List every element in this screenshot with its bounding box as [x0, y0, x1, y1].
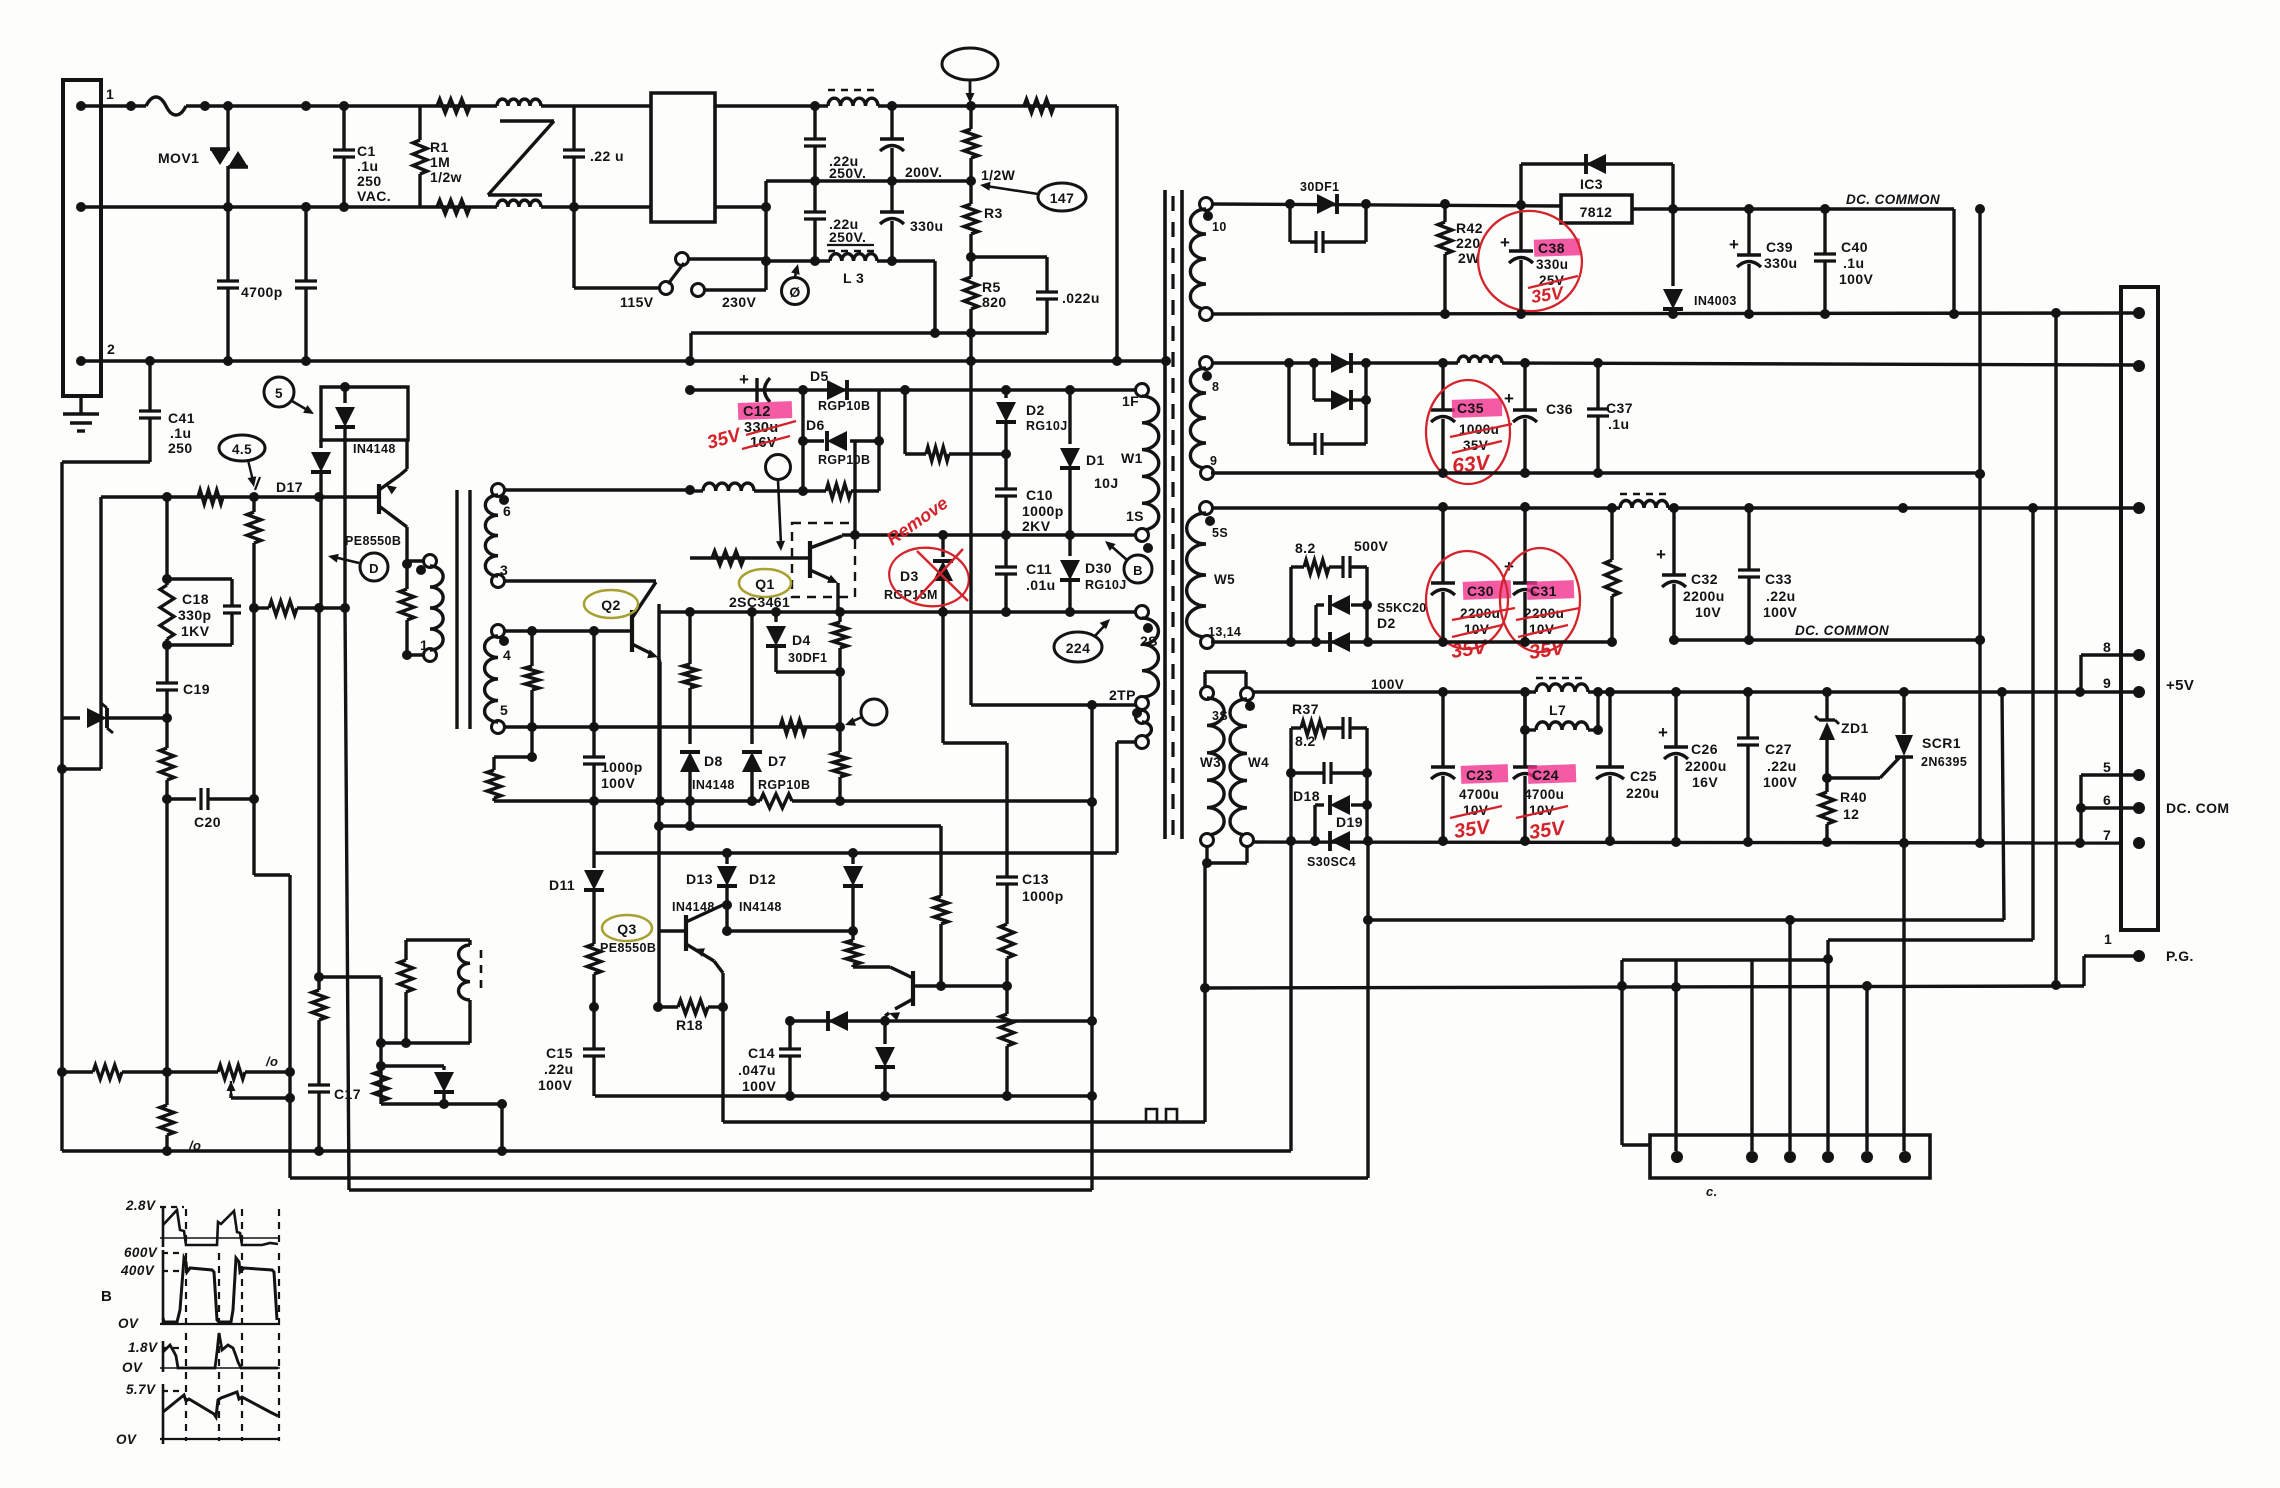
winding 5S [1200, 502, 1213, 515]
svg-text:820: 820 [982, 294, 1007, 310]
svg-text:RGP10B: RGP10B [818, 399, 870, 413]
resistor x254 upper [252, 497, 255, 512]
capacitor C30 [1441, 507, 1444, 583]
wire pin5 bracket [2081, 773, 2139, 776]
waveform4 axis [162, 1384, 165, 1444]
winding W4 [1241, 688, 1254, 701]
wire row2 bottom rail [1211, 471, 1980, 474]
resistor x853 to Q4 [851, 931, 854, 940]
pin 8 [2133, 649, 2145, 661]
arrow from 4.5 [248, 460, 253, 481]
wire 200V midline [766, 179, 971, 182]
wire rail1 right part [715, 104, 828, 107]
svg-text:100V: 100V [1763, 774, 1798, 790]
red circle around D3 [885, 543, 972, 612]
diode D2 [1004, 390, 1007, 398]
SCR1 gate [1827, 776, 1880, 779]
svg-text:PE8550B: PE8550B [345, 534, 401, 548]
wire D6 loop left [801, 390, 804, 491]
wire Q4 collector [853, 965, 890, 968]
resistor x840 upper [838, 612, 841, 622]
wire row2 right vertical [1364, 363, 1367, 444]
wire y1066 [381, 1064, 444, 1067]
svg-text:D19: D19 [1336, 814, 1363, 830]
svg-text:DC. COMMON: DC. COMMON [1846, 192, 1940, 207]
wire doubler mid vertical [764, 181, 767, 290]
svg-text:C19: C19 [183, 681, 210, 697]
diode D30 [1068, 535, 1071, 556]
wire y1043 [381, 1041, 470, 1044]
wire pin2 riser [1750, 960, 1753, 1151]
wire pin3 riser [1788, 920, 1791, 1151]
transistor Q4 [911, 971, 915, 1006]
diode D3 with red remove [941, 535, 944, 557]
svg-text:1000p: 1000p [1022, 503, 1064, 519]
cap row4 mid [1291, 771, 1324, 774]
balloon B [1124, 555, 1152, 583]
resistor across T2 left [405, 530, 408, 589]
wire x659 down [657, 612, 660, 931]
pink highlight C35 [1452, 398, 1503, 418]
inductor on line 2 [497, 200, 541, 207]
svg-text:IN4003: IN4003 [1694, 294, 1737, 308]
svg-text:L 3: L 3 [843, 270, 864, 286]
core line left [1163, 190, 1167, 839]
svg-text:OV: OV [118, 1316, 139, 1331]
waveform 4 [163, 1392, 278, 1417]
balloon 224 [1054, 632, 1102, 662]
svg-text:4700p: 4700p [241, 284, 283, 300]
wire row4 bottom rail [1252, 842, 2121, 843]
wire AC line 1 [81, 104, 146, 107]
svg-text:C11: C11 [1026, 561, 1052, 577]
T2 left winding stubs [407, 559, 424, 562]
wire rung y491 [498, 488, 690, 491]
wire MOV drop [226, 106, 229, 148]
wire x941 top y826 [939, 826, 942, 853]
diode row2 b [1312, 363, 1315, 400]
wire x1980 long [1978, 209, 1981, 843]
svg-text:B: B [101, 1288, 112, 1305]
balloon 5 [264, 377, 294, 407]
resistor R3 upper [969, 106, 972, 129]
winding 3S W3 [1201, 687, 1214, 700]
svg-text:C17: C17 [334, 1086, 361, 1102]
pin 7 [2133, 837, 2145, 849]
capacitor C20 [167, 797, 196, 800]
svg-text:9: 9 [1210, 454, 1217, 468]
resistor pot row left [62, 1070, 93, 1073]
diode row2 a [1331, 353, 1351, 373]
wire x317 C17 column [317, 608, 320, 977]
svg-text:R1: R1 [430, 139, 449, 155]
winding 8-9 [1200, 357, 1213, 370]
arrow from 5 [292, 401, 309, 411]
capacitor C25 [1608, 692, 1611, 767]
svg-text:16V: 16V [1692, 774, 1718, 790]
svg-text:4: 4 [503, 647, 511, 663]
svg-text:W5: W5 [1214, 572, 1235, 587]
wire y1104 [381, 1102, 502, 1105]
svg-text:.1u: .1u [1843, 255, 1864, 271]
svg-text:10J: 10J [1094, 475, 1119, 491]
svg-text:35V: 35V [1453, 816, 1493, 843]
svg-text:Q3: Q3 [617, 921, 636, 937]
diode D4 loop [774, 612, 777, 622]
svg-text:230V: 230V [722, 294, 757, 310]
pot wiper wire [229, 1094, 232, 1098]
svg-text:DC. COMMON: DC. COMMON [1795, 623, 1889, 638]
wire pin5 riser [1865, 986, 1868, 1151]
resistor below D11 [587, 944, 601, 974]
wire Q2 collector x659 [657, 604, 660, 612]
svg-text:1: 1 [420, 637, 428, 653]
resistor x1007 lower [1000, 1014, 1014, 1046]
svg-text:10: 10 [1212, 220, 1227, 234]
W3 W4 bottom tie [1205, 845, 1208, 863]
arrow from 224 [1094, 624, 1106, 637]
svg-text:5S: 5S [1212, 526, 1228, 540]
pin 9 [2133, 686, 2145, 698]
arrow to x840 node [849, 717, 862, 723]
pin row2 J2 [2133, 360, 2145, 372]
svg-text:VAC.: VAC. [357, 188, 391, 204]
wire rail y497 [101, 495, 377, 498]
svg-text:B: B [1133, 563, 1143, 578]
svg-text:.047u: .047u [738, 1062, 776, 1078]
wire PG stub [2084, 954, 2139, 957]
pulse symbol [1140, 1109, 1183, 1122]
svg-text:RGP15M: RGP15M [884, 588, 938, 602]
svg-text:IN4148: IN4148 [739, 900, 782, 914]
svg-text:R3: R3 [984, 205, 1003, 221]
svg-text:W3: W3 [1200, 755, 1221, 770]
svg-text:IN4148: IN4148 [692, 778, 735, 792]
diode D8 [680, 752, 700, 772]
svg-text:2: 2 [107, 341, 115, 357]
svg-text:5: 5 [500, 702, 508, 718]
svg-text:1/2w: 1/2w [430, 169, 462, 185]
resistor x494 [492, 757, 495, 770]
inductor with dashed core [828, 98, 878, 106]
line filter box [651, 93, 715, 222]
svg-text:C40: C40 [1841, 239, 1868, 255]
pin 5 [2133, 769, 2145, 781]
resistor on line 1 [437, 99, 470, 113]
pin 6 [2133, 802, 2145, 814]
diode D2a row3 [1316, 603, 1324, 606]
J3 pin f [1899, 1151, 1911, 1163]
resistor on rail y497 [198, 490, 223, 504]
ground [79, 396, 82, 414]
winding W1 upper [1136, 384, 1149, 397]
svg-text:C35: C35 [1457, 400, 1484, 416]
resistor y454 [905, 452, 926, 455]
svg-text:200V.: 200V. [905, 164, 942, 180]
resistor x317 [317, 977, 320, 990]
svg-text:D5: D5 [810, 368, 829, 384]
resistor row y608 [269, 601, 297, 615]
wire AC line 2 [81, 205, 497, 208]
svg-text:250V.: 250V. [829, 165, 866, 181]
svg-text:35V: 35V [705, 424, 744, 453]
svg-text:C33: C33 [1765, 571, 1792, 587]
pin +12 J2 [2133, 307, 2145, 319]
svg-text:C41: C41 [168, 410, 195, 426]
svg-text:30DF1: 30DF1 [1300, 180, 1340, 194]
varistor MOV1 [210, 149, 230, 165]
dash 1.8V [162, 1347, 180, 1349]
wire down from L3 line [933, 261, 936, 333]
svg-text:C36: C36 [1546, 401, 1573, 417]
winding W1 tail [1136, 711, 1149, 724]
svg-text:35V: 35V [1530, 282, 1566, 307]
wire x594 D11 column [592, 801, 595, 853]
resistor on line 2 [437, 200, 470, 214]
core line right [1180, 190, 1184, 839]
svg-text:Q2: Q2 [601, 597, 620, 613]
wire line B right [2031, 508, 2034, 940]
inductor L3 [830, 254, 877, 261]
capacitor C37 [1596, 363, 1599, 409]
diode D2b row3 [1330, 632, 1350, 652]
capacitor C1 [342, 106, 345, 150]
svg-text:IC3: IC3 [1580, 176, 1603, 192]
svg-text:D3: D3 [900, 568, 919, 584]
wire L3 line [766, 259, 830, 262]
diode 30DF1 [1317, 194, 1337, 214]
wire rail y1096 [595, 1094, 1092, 1097]
capacitor C15 [592, 1007, 595, 1049]
dashed box around Q1 [792, 523, 855, 597]
svg-text:2KV: 2KV [1022, 518, 1051, 534]
waveform dashed verticals band3 [185, 1333, 187, 1441]
zener ZD1 [1825, 692, 1828, 720]
resistor x690 mid [688, 612, 691, 664]
svg-text:2.8V: 2.8V [125, 1198, 156, 1213]
resistor x167 low [165, 718, 168, 748]
svg-text:C30: C30 [1467, 583, 1494, 599]
wire PG line [1205, 986, 2084, 988]
J3 pin d [1822, 1151, 1834, 1163]
wire 2TP net horizontal [971, 703, 1136, 706]
wire pin4 line [503, 629, 632, 632]
wire pin6 riser [1902, 843, 1905, 1151]
arrow from B [1110, 545, 1127, 560]
wire C13 column top [941, 612, 944, 743]
transistor Q1 [808, 541, 812, 578]
diode D12 [851, 853, 854, 864]
resistor R40 [1825, 778, 1828, 792]
resistor R3 lower [964, 204, 978, 234]
wire x594 upper [592, 631, 595, 727]
svg-text:1000p: 1000p [1022, 888, 1064, 904]
transistor PNP (D) [377, 484, 381, 514]
pin row3 J2 [2133, 502, 2145, 514]
svg-text:220u: 220u [1626, 785, 1660, 801]
svg-text:2200u: 2200u [1683, 588, 1725, 604]
red X over D3 [917, 551, 968, 601]
svg-text:S5KC20: S5KC20 [1377, 601, 1427, 615]
svg-text:C24: C24 [1532, 767, 1559, 783]
pink highlight C31 [1527, 580, 1575, 600]
svg-text:C20: C20 [194, 814, 221, 830]
svg-text:5: 5 [275, 386, 283, 401]
capacitor .22u 250V (top) [813, 106, 816, 139]
J3 pin b [1746, 1151, 1758, 1163]
wire D6 loop right [877, 390, 880, 491]
svg-text:ZD1: ZD1 [1841, 720, 1869, 736]
diode D5 [827, 380, 847, 400]
inductor L7 block [1523, 692, 1526, 730]
svg-text:2200u: 2200u [1524, 606, 1564, 621]
wire x690 upper [689, 333, 692, 361]
svg-text:+: + [1500, 233, 1510, 252]
capacitor C10 [1004, 454, 1007, 489]
svg-text:C23: C23 [1466, 767, 1493, 783]
wire row1 DC common rail [1632, 207, 1954, 210]
balloon Q1 [739, 569, 791, 597]
capacitor 330u (top right) [890, 106, 893, 139]
J3 pin c [1784, 1151, 1796, 1163]
svg-text:D17: D17 [276, 479, 303, 495]
balloon 147 [1038, 183, 1086, 211]
svg-text:224: 224 [1066, 640, 1091, 656]
svg-text:5: 5 [2103, 759, 2111, 775]
svg-text:100V: 100V [1839, 271, 1874, 287]
svg-text:R37: R37 [1292, 701, 1319, 717]
transistor Q2 [630, 610, 634, 652]
resistor on rail y727 [780, 720, 806, 734]
svg-text:8: 8 [1212, 380, 1219, 394]
svg-text:S30SC4: S30SC4 [1307, 855, 1356, 869]
arrow from test point [969, 80, 972, 97]
svg-text:D1: D1 [1086, 452, 1105, 468]
svg-text:D2: D2 [1026, 402, 1045, 418]
SCR1 [1902, 692, 1905, 734]
svg-text:D8: D8 [704, 753, 723, 769]
svg-text:R5: R5 [982, 279, 1001, 295]
resistor on rail1 right [1024, 99, 1054, 113]
svg-text:D18: D18 [1293, 788, 1320, 804]
svg-text:+5V: +5V [2166, 677, 2194, 694]
wire C41 return [62, 460, 150, 463]
svg-text:1: 1 [2104, 931, 2112, 947]
svg-text:10V: 10V [1695, 604, 1721, 620]
svg-text:+: + [1729, 235, 1739, 254]
svg-text:4700u: 4700u [1459, 787, 1499, 802]
svg-text:2200u: 2200u [1685, 758, 1727, 774]
wire x381 [379, 977, 382, 1104]
wire Q4 base row [916, 984, 1007, 987]
wire y931 segments [659, 929, 686, 932]
capacitor 1000p 100V [592, 727, 595, 757]
svg-text:250: 250 [357, 173, 382, 189]
wire diode row y1021 [790, 1019, 1092, 1022]
J3 pin a [1671, 1151, 1683, 1163]
pink highlight C23 [1461, 764, 1509, 784]
svg-text:IN4148: IN4148 [353, 442, 396, 456]
wire x502 [500, 1104, 503, 1151]
zener diode [62, 716, 80, 719]
wire line D y1178 [290, 1176, 1368, 1179]
dashed mark above L3 [828, 250, 877, 252]
svg-text:1S: 1S [1126, 508, 1144, 524]
red circle C31 [1500, 548, 1580, 652]
diode D13 [725, 853, 728, 864]
capacitor C39 [1747, 209, 1750, 255]
svg-text:5.7V: 5.7V [126, 1382, 156, 1397]
svg-text:RGP10B: RGP10B [758, 778, 810, 792]
capacitor 4700p (right) [304, 207, 307, 281]
svg-text:.01u: .01u [1026, 577, 1056, 593]
svg-text:C13: C13 [1022, 871, 1049, 887]
wire 2TP net vertical [969, 333, 972, 705]
balloon Q2 [584, 590, 638, 618]
test point circle right [861, 699, 887, 725]
svg-text:100V: 100V [1371, 677, 1404, 692]
pin 2 of J1 [76, 356, 86, 366]
pin (middle) of J1 [76, 202, 86, 212]
svg-text:6: 6 [503, 503, 511, 519]
svg-text:R40: R40 [1840, 789, 1867, 805]
svg-text:OV: OV [122, 1360, 143, 1375]
wire AC line 2 (rail3) [81, 359, 1166, 362]
svg-text:250: 250 [168, 440, 193, 456]
wire x840 to rail [838, 672, 841, 727]
wire rail y853 [594, 851, 1117, 854]
svg-text:500V: 500V [1354, 538, 1389, 554]
1N4148 box [321, 387, 408, 440]
wire x2056 [2054, 313, 2057, 985]
resistor R5 [964, 277, 978, 309]
svg-text:2SC3461: 2SC3461 [729, 594, 790, 610]
svg-text:D11: D11 [549, 877, 575, 893]
node dots on left vertical [57, 764, 67, 774]
inductor on line 1 [497, 99, 541, 106]
wire Q3 emitter down [721, 973, 724, 1122]
resistor x840 lower [838, 727, 841, 752]
inductor on rung [690, 489, 703, 492]
capacitor C19 [165, 645, 168, 683]
wire y977 link [319, 975, 381, 978]
svg-text:+: + [1656, 545, 1666, 564]
resistor R1 [418, 106, 421, 140]
connector J3 (bottom) [1650, 1135, 1930, 1178]
svg-text:OV: OV [116, 1432, 137, 1447]
wire row1 to connector [1952, 209, 1955, 314]
capacitor 330u (bottom right) [890, 181, 893, 212]
wire row3 bottom rail [1211, 640, 1612, 643]
switch 115/230 [676, 253, 689, 266]
balloon Q3 [602, 915, 652, 941]
svg-text:+: + [1658, 723, 1668, 742]
waveform 1 [163, 1210, 278, 1245]
wire row3 dc common [1674, 638, 1980, 641]
svg-text:D6: D6 [806, 417, 825, 433]
svg-text:+: + [1504, 389, 1514, 408]
svg-text:250V.: 250V. [829, 229, 866, 245]
svg-text:330u: 330u [1536, 257, 1568, 272]
diode on y1021 [828, 1011, 848, 1031]
capacitor C26 [1674, 692, 1677, 747]
svg-text:.22u: .22u [1767, 758, 1797, 774]
connector J2 (output) [2121, 287, 2158, 930]
svg-text:8.2: 8.2 [1295, 733, 1316, 749]
wire 230V side [703, 288, 766, 291]
svg-text:.22u: .22u [1766, 588, 1796, 604]
capacitor C40 [1823, 209, 1826, 254]
